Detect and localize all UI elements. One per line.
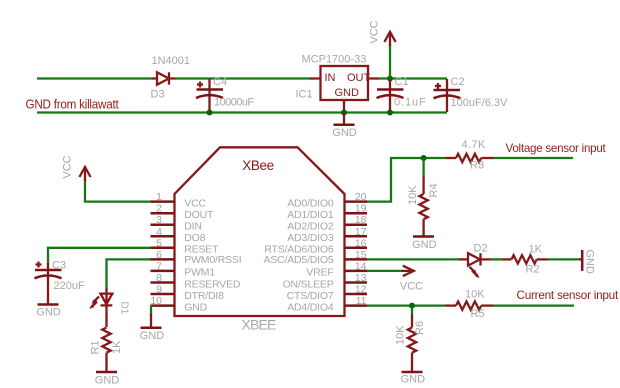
svg-text:100uF/6.3V: 100uF/6.3V	[451, 97, 509, 109]
svg-text:ASC/AD5/DIO5: ASC/AD5/DIO5	[264, 254, 334, 266]
svg-text:MCP1700-33: MCP1700-33	[302, 54, 367, 66]
svg-text:IC1: IC1	[296, 88, 313, 100]
svg-text:7: 7	[156, 260, 162, 272]
ground GND right (rotated)	[579, 250, 596, 275]
wire R2 to ground	[549, 258, 581, 260]
ground GND under R1	[95, 372, 120, 386]
pin 20 AD0/DIO0	[287, 191, 367, 209]
capacitor C1	[377, 76, 427, 112]
svg-text:GND: GND	[140, 330, 165, 342]
svg-text:10K: 10K	[407, 185, 419, 205]
pin 3 DIN	[151, 214, 202, 232]
svg-text:6: 6	[156, 249, 162, 261]
svg-text:C4: C4	[213, 76, 227, 88]
svg-text:GND from killawatt: GND from killawatt	[26, 98, 120, 112]
wire R5 to label	[494, 304, 575, 306]
wire junction to R4	[422, 158, 424, 178]
wire VCC riser	[389, 45, 391, 79]
pin 13 ON/SLEEP	[283, 272, 367, 290]
wire pin15 to D2	[367, 258, 461, 260]
wire top rail mid segment (diode to IC1 IN)	[176, 77, 310, 79]
svg-text:D3: D3	[151, 88, 165, 100]
svg-text:VREF: VREF	[306, 267, 333, 279]
pin 11 AD4/DIO4	[287, 295, 367, 313]
op IC1 regulator MCP1700-33 box	[296, 54, 371, 101]
wire R3 to label	[494, 157, 574, 159]
wire pin1 to VCC	[85, 180, 151, 202]
svg-text:12: 12	[355, 284, 367, 296]
svg-text:13: 13	[355, 272, 367, 284]
wire OUT to C2 top	[379, 77, 447, 79]
ground GND under C3	[36, 305, 61, 319]
wire top rail left segment	[37, 77, 152, 79]
svg-text:Current sensor input: Current sensor input	[517, 288, 619, 302]
svg-text:R3: R3	[470, 159, 484, 171]
svg-text:CTS/DIO7: CTS/DIO7	[287, 290, 334, 302]
ground GND under IC1	[332, 113, 357, 139]
svg-text:Voltage sensor input: Voltage sensor input	[506, 141, 607, 155]
svg-text:PWM0/RSSI: PWM0/RSSI	[184, 254, 241, 266]
wire D2 to R2	[491, 258, 502, 260]
svg-text:10: 10	[150, 295, 162, 307]
LED D2	[460, 242, 492, 278]
svg-text:3: 3	[156, 214, 162, 226]
svg-text:9: 9	[156, 284, 162, 296]
wire pin6 to D1	[107, 259, 151, 290]
LED D1	[90, 289, 130, 328]
resistor R5	[446, 289, 494, 321]
pin IC1 OUT stub	[368, 77, 379, 79]
svg-text:GND: GND	[36, 306, 61, 318]
svg-text:AD1/DIO1: AD1/DIO1	[287, 209, 334, 221]
svg-text:GND: GND	[335, 87, 360, 99]
pin 15 ASC/AD5/DIO5	[264, 249, 367, 266]
node: junction R3/R4	[421, 155, 427, 161]
svg-text:GND: GND	[95, 374, 120, 386]
svg-text:AD4/DIO4: AD4/DIO4	[287, 301, 334, 313]
diode D3	[151, 55, 191, 100]
wire bottom rail	[37, 111, 447, 113]
svg-text:15: 15	[355, 249, 367, 261]
pin 7 PWM1	[151, 260, 216, 278]
svg-text:XBee: XBee	[242, 158, 273, 173]
node: junction C4 / bottom rail	[207, 110, 213, 116]
svg-text:VCC: VCC	[369, 20, 381, 43]
svg-text:2: 2	[156, 203, 162, 215]
svg-text:AD0/DIO0: AD0/DIO0	[287, 197, 334, 209]
capacitor C2	[434, 76, 509, 112]
resistor R3	[446, 139, 494, 171]
svg-text:AD3/DIO3: AD3/DIO3	[287, 232, 334, 244]
pin 6 PWM0/RSSI	[151, 249, 242, 266]
svg-text:0.1uF: 0.1uF	[394, 97, 427, 109]
svg-text:16: 16	[355, 237, 367, 249]
svg-text:OUT: OUT	[347, 72, 371, 84]
svg-text:20: 20	[355, 191, 367, 203]
resistor R6	[395, 315, 427, 372]
svg-text:GND: GND	[184, 301, 207, 313]
pin 18 AD2/DIO2	[287, 214, 367, 232]
svg-text:GND: GND	[412, 239, 437, 251]
svg-text:VCC: VCC	[184, 197, 206, 209]
svg-text:R1: R1	[89, 340, 101, 354]
pin 14 VREF	[306, 260, 367, 278]
svg-text:VCC: VCC	[62, 155, 74, 178]
svg-text:1K: 1K	[529, 244, 543, 256]
pin 12 CTS/DIO7	[287, 284, 367, 302]
pin 1 VCC	[151, 191, 207, 209]
svg-text:C2: C2	[451, 76, 465, 88]
node: junction IC1 GND bottom	[341, 110, 347, 116]
svg-text:10K: 10K	[465, 289, 485, 301]
svg-text:5: 5	[156, 237, 162, 249]
svg-text:R5: R5	[471, 308, 485, 320]
node: junction C1 bottom	[387, 110, 393, 116]
node: junction VCC/C1/OUT	[387, 76, 393, 82]
resistor R2	[502, 244, 549, 276]
power VCC arrow (right, pin14)	[400, 266, 423, 293]
svg-text:R2: R2	[526, 264, 540, 276]
pin IC1 IN stub	[310, 77, 321, 79]
pin 19 AD1/DIO1	[287, 203, 367, 221]
svg-text:PWM1: PWM1	[184, 267, 215, 279]
svg-text:8: 8	[156, 272, 162, 284]
svg-text:IN: IN	[325, 72, 336, 84]
capacitor C4	[196, 76, 254, 112]
svg-text:DO8: DO8	[184, 232, 205, 244]
svg-text:D1: D1	[119, 302, 130, 315]
svg-text:GND: GND	[584, 250, 596, 275]
svg-text:18: 18	[355, 214, 367, 226]
svg-text:R4: R4	[428, 183, 440, 197]
node: junction R5/R6	[409, 303, 415, 309]
resistor R1	[89, 328, 123, 372]
svg-text:DTR/DI8: DTR/DI8	[184, 290, 224, 302]
svg-text:1N4001: 1N4001	[152, 55, 191, 67]
wire pin11 current sense	[367, 304, 446, 306]
svg-text:GND: GND	[332, 127, 357, 139]
svg-text:AD2/DIO2: AD2/DIO2	[287, 221, 334, 233]
pin IC1 GND stub	[343, 100, 345, 113]
wire pin5 to C3	[48, 248, 151, 265]
pin 5 RESET	[151, 237, 220, 255]
pin 4 DO8	[151, 226, 206, 244]
pin 17 AD3/DIO3	[287, 226, 367, 244]
pin 8 RESERVED	[151, 272, 241, 290]
op-amp U1 XBee body	[175, 147, 345, 332]
svg-text:4.7K: 4.7K	[462, 139, 486, 151]
wire junction to R6	[411, 306, 413, 316]
svg-text:14: 14	[355, 260, 367, 272]
svg-text:C1: C1	[395, 76, 409, 88]
wire pin10 to ground	[150, 306, 152, 316]
svg-text:D2: D2	[474, 242, 488, 254]
ground GND under R6	[401, 372, 426, 385]
svg-text:4: 4	[156, 226, 162, 238]
svg-text:XBEE: XBEE	[241, 317, 276, 333]
svg-text:220uF: 220uF	[54, 280, 85, 292]
svg-text:R6: R6	[414, 321, 426, 335]
wire pin20 up to voltage divider	[367, 158, 446, 202]
svg-text:17: 17	[355, 226, 367, 238]
svg-text:10000uF: 10000uF	[214, 97, 254, 109]
svg-text:DIN: DIN	[184, 221, 201, 233]
svg-text:RESERVED: RESERVED	[184, 278, 241, 290]
pin 2 DOUT	[151, 203, 215, 221]
resistor R4	[407, 177, 440, 236]
ground GND under R4	[412, 237, 437, 251]
svg-text:GND: GND	[401, 373, 426, 385]
svg-text:11: 11	[356, 295, 367, 307]
pin 16 RTS/AD6/DIO6	[264, 237, 367, 255]
svg-text:1: 1	[156, 191, 162, 203]
svg-text:19: 19	[355, 203, 367, 215]
pin 10 GND	[150, 295, 207, 313]
svg-text:C3: C3	[52, 260, 66, 272]
wire pin14 to VCC arrow	[367, 270, 403, 272]
svg-text:10K: 10K	[395, 325, 407, 345]
ground GND under pin10	[140, 314, 165, 342]
pin 9 DTR/DI8	[151, 284, 225, 302]
capacitor C3	[35, 260, 85, 304]
svg-text:ON/SLEEP: ON/SLEEP	[283, 278, 334, 290]
svg-text:1K: 1K	[111, 340, 123, 354]
svg-text:VCC: VCC	[400, 280, 423, 292]
svg-text:DOUT: DOUT	[184, 209, 214, 221]
power VCC arrow (top)	[369, 20, 396, 46]
power VCC arrow (left)	[62, 155, 91, 181]
